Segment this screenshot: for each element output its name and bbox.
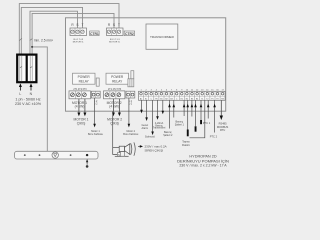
arrow into strip electrode 2	[191, 104, 194, 108]
arrow into strip PTC 1	[207, 104, 210, 108]
svg-text:PTC 2: PTC 2	[210, 134, 218, 138]
svg-text:AL: AL	[140, 97, 142, 100]
label N box at siren	[117, 153, 120, 157]
wire earth to ground bar	[32, 47, 47, 151]
arrow RS485	[220, 116, 223, 121]
arrow motor2 output U	[112, 113, 115, 117]
arrow spare output 2	[162, 111, 165, 115]
svg-text:S: S	[113, 23, 115, 27]
svg-text:Flatörü: Flatörü	[182, 144, 190, 147]
wire electrode 4	[200, 100, 202, 120]
ground bar pump symbol	[52, 152, 58, 158]
wire siren live branch	[113, 146, 120, 148]
svg-text:B3: B3	[170, 98, 172, 100]
contactor block CTR2 terminals	[107, 28, 124, 36]
svg-text:T: T	[118, 23, 120, 27]
power relay K2	[106, 73, 129, 84]
svg-text:CTR2: CTR2	[125, 32, 134, 36]
svg-text:1 ph - 50/60 Hz: 1 ph - 50/60 Hz	[15, 97, 40, 101]
wire electrode 1	[187, 100, 189, 129]
svg-text:ÇIKIŞ: ÇIKIŞ	[77, 122, 86, 126]
svg-text:N: N	[118, 153, 120, 157]
wire overflow float	[190, 100, 205, 138]
svg-text:(4 kW): (4 kW)	[109, 105, 119, 109]
power relay K1	[73, 73, 96, 84]
terminal strip X1	[139, 91, 226, 100]
ground electrode arrow	[86, 161, 88, 165]
wire motor1 output V	[84, 99, 86, 114]
svg-text:PTC 1: PTC 1	[203, 121, 211, 125]
arrow spare stub left	[140, 110, 143, 114]
motor 1 thermistor terminal block	[91, 91, 100, 98]
wire electrode 3	[195, 100, 197, 126]
svg-text:DERİNKUYU POMPASI İÇİN: DERİNKUYU POMPASI İÇİN	[177, 158, 229, 163]
contactor block CTR1 terminals	[70, 28, 87, 36]
svg-text:E1: E1	[181, 98, 183, 100]
terminal strip numbers	[140, 90, 224, 92]
wire motor2 thermistor lead	[128, 98, 130, 125]
svg-text:Alarm: Alarm	[142, 127, 149, 130]
siren horn	[115, 142, 135, 156]
svg-text:Şalteri 1: Şalteri 1	[175, 124, 185, 127]
svg-text:CTR1: CTR1	[90, 32, 99, 36]
svg-text:Boru Kablosu: Boru Kablosu	[123, 133, 139, 136]
motor 2 output terminal block	[104, 91, 125, 99]
wire pressure switch 1	[173, 100, 175, 117]
electrode E2 bar	[195, 126, 197, 131]
svg-text:S: S	[76, 23, 78, 27]
wire pressure transmitter	[157, 100, 159, 117]
wire electrode common	[183, 100, 185, 116]
svg-text:E3: E3	[191, 98, 193, 100]
wire L1 supply to CTR2	[19, 4, 119, 54]
arrow solenoid	[151, 132, 154, 136]
svg-text:TRANSFORMER: TRANSFORMER	[150, 35, 175, 39]
terminal strip tag row	[140, 97, 225, 100]
transformer T1	[146, 24, 178, 49]
wire motor1 thermistor lead	[94, 98, 96, 125]
arrow motor2 thermistor	[128, 124, 131, 128]
arrow motor2 output V	[118, 113, 121, 117]
wire RS485	[220, 100, 222, 116]
wire motor1 output U	[78, 99, 80, 114]
wire L2 supply to CTR1	[21, 7, 82, 53]
arrow into strip PTC 2	[213, 104, 216, 108]
svg-text:T: T	[82, 23, 84, 27]
svg-text:230 V / max. 2 x 2.2 kW - 17 A: 230 V / max. 2 x 2.2 kW - 17 A	[179, 164, 227, 168]
arrow into strip electrode 3	[194, 104, 197, 108]
arrow pressure transmitter	[156, 116, 159, 120]
svg-text:MOTOR G.: MOTOR G.	[73, 41, 84, 43]
arrow into strip pressure switch 2	[168, 104, 171, 108]
svg-text:B2: B2	[165, 98, 167, 100]
electrode E3 bar	[200, 120, 202, 124]
svg-text:RELAY: RELAY	[112, 79, 123, 83]
arrow into strip pressure switch 1	[173, 104, 176, 108]
ground electrode dot	[86, 165, 89, 168]
breaker Q1 (2-pole main switch)	[17, 55, 36, 83]
wire PTC 1	[207, 100, 209, 118]
svg-text:B1: B1	[160, 98, 162, 100]
junction earth branch	[31, 46, 33, 48]
wire N2 supply to CTR2	[32, 13, 114, 53]
svg-text:P1: P1	[211, 98, 213, 100]
svg-text:ÇIKIŞ: ÇIKIŞ	[110, 122, 119, 126]
svg-text:SL: SL	[145, 98, 147, 100]
svg-text:Şalteri 2: Şalteri 2	[163, 134, 173, 137]
svg-text:(4 kW): (4 kW)	[75, 105, 85, 109]
wire genel alarm	[141, 100, 143, 110]
svg-text:RTU: RTU	[220, 128, 225, 132]
arrow genel alarm	[145, 117, 148, 121]
svg-text:E2: E2	[186, 98, 188, 100]
wire motor2 output U	[112, 99, 114, 114]
svg-text:MOTOR G.: MOTOR G.	[109, 41, 120, 43]
wire electrode 2	[191, 100, 193, 116]
wire spare output 2	[162, 100, 164, 111]
capacitor C1	[96, 78, 99, 86]
supply arrow N	[30, 83, 33, 90]
label box CTR2	[124, 31, 134, 36]
svg-text:SİREN ÇIKIŞI: SİREN ÇIKIŞI	[145, 148, 164, 153]
supply arrow L	[19, 83, 22, 90]
motor 1 output terminal block	[69, 91, 90, 99]
svg-text:L: L	[19, 92, 21, 96]
wire solenoid	[146, 100, 148, 118]
svg-text:Transmitteri: Transmitteri	[153, 127, 166, 130]
svg-text:min. 2.5 mm²: min. 2.5 mm²	[34, 39, 54, 43]
arrow motor1 output U	[77, 113, 80, 117]
arrow motor1 thermistor	[93, 124, 96, 128]
capacitor C2	[131, 71, 134, 79]
ground bar	[15, 151, 99, 159]
wire pressure switch 2	[169, 100, 171, 128]
svg-text:230 V AC ±10%: 230 V AC ±10%	[15, 102, 42, 106]
wire N1 supply to CTR1	[30, 11, 78, 54]
arrow into strip electrode common	[183, 104, 186, 108]
terminal strip dividers and screws	[144, 91, 221, 100]
electrode E1 bar	[187, 130, 189, 137]
arrow motor1 output V	[83, 113, 86, 117]
wire PTC 2	[214, 100, 216, 132]
arrow into strip electrode 4	[200, 104, 203, 108]
wire spare output 1	[152, 100, 154, 132]
svg-text:T1: T1	[201, 98, 203, 100]
terminal pair C2b	[128, 79, 134, 87]
svg-text:E4: E4	[196, 98, 198, 100]
svg-text:Boru Kablosu: Boru Kablosu	[88, 133, 104, 136]
arrow siren output	[138, 145, 141, 147]
label box CTR1	[90, 31, 99, 36]
panel enclosure outline	[66, 18, 226, 111]
motor 2 thermistor terminal block	[126, 91, 135, 98]
wire siren feed	[113, 111, 118, 154]
svg-text:P2: P2	[216, 98, 218, 100]
cable tick marks	[19, 38, 22, 40]
wire motor2 output V	[118, 99, 120, 114]
arrow into strip electrode 1	[186, 104, 189, 108]
svg-text:Solenoid: Solenoid	[145, 136, 155, 139]
svg-text:RELAY: RELAY	[79, 79, 90, 83]
svg-text:T2: T2	[206, 98, 208, 100]
